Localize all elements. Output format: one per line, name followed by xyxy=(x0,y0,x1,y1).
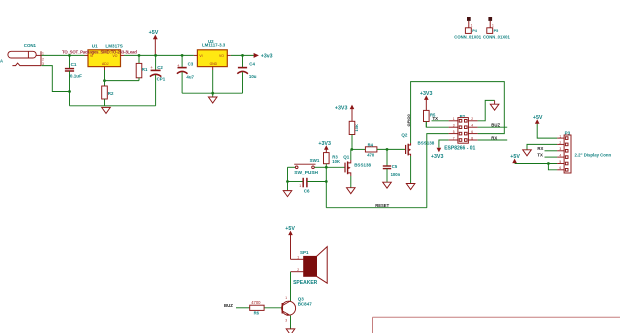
svg-text:TX: TX xyxy=(433,116,439,121)
svg-text:4: 4 xyxy=(559,154,561,158)
svg-text:6: 6 xyxy=(471,130,473,134)
svg-text:3: 3 xyxy=(453,124,455,128)
resistor R4 xyxy=(352,142,406,157)
transistor Q1 BSS138 xyxy=(326,154,371,176)
svg-text:1: 1 xyxy=(297,256,299,260)
power +5V speaker xyxy=(285,226,295,259)
svg-text:VO: VO xyxy=(113,54,118,58)
svg-text:R6: R6 xyxy=(254,310,260,315)
ground symbol P3 pin2 xyxy=(523,150,532,156)
wire SW1 left down xyxy=(287,167,289,190)
transistor Q2 BSS138 xyxy=(401,133,434,156)
svg-text:C5: C5 xyxy=(392,164,398,169)
power +5V P3 pin5 xyxy=(510,154,520,163)
wire RESET run xyxy=(326,207,427,209)
svg-text:+: + xyxy=(150,65,153,70)
wire Q1 drain up xyxy=(350,149,352,160)
svg-text:LM317S: LM317S xyxy=(105,44,122,49)
svg-text:LM1117-3.3: LM1117-3.3 xyxy=(202,43,226,48)
wire P3 pin3 RX xyxy=(545,150,558,152)
connector P2 ESP8266-01 header xyxy=(444,114,477,151)
svg-text:5: 5 xyxy=(559,160,561,164)
svg-text:7: 7 xyxy=(453,136,455,140)
svg-text:CON1: CON1 xyxy=(24,43,37,48)
svg-text:4: 4 xyxy=(471,124,473,128)
svg-text:10u: 10u xyxy=(249,74,257,79)
regulator U2 LM1117-3.3 xyxy=(194,39,231,70)
ground symbol PSU2 xyxy=(208,93,217,103)
svg-text:P5: P5 xyxy=(494,29,499,33)
wire Q1 source down xyxy=(350,176,352,188)
svg-text:U1: U1 xyxy=(92,44,98,49)
capacitor C1 0.1uF xyxy=(65,55,82,105)
wire P3 pin4 TX xyxy=(545,156,558,158)
svg-text:R1: R1 xyxy=(142,67,148,72)
connector CON1 barrel jack xyxy=(0,43,44,66)
svg-text:+3V3: +3V3 xyxy=(335,105,348,111)
wire pin1 TX stub xyxy=(432,120,449,122)
connector P5 CONN_01X01 xyxy=(483,17,510,40)
node junction R1 top xyxy=(138,54,141,57)
svg-text:C4: C4 xyxy=(249,61,255,66)
wire SP1 pin2 to Q3 collector xyxy=(290,272,292,302)
SECTION: power supply xyxy=(0,30,273,113)
svg-text:ADJ: ADJ xyxy=(102,62,109,66)
wire pin4 BUZ xyxy=(478,126,508,128)
svg-text:BUZ: BUZ xyxy=(224,303,233,308)
node junction ADJ xyxy=(103,79,106,82)
svg-text:BUZ: BUZ xyxy=(491,123,500,128)
svg-text:1: 1 xyxy=(492,23,494,27)
speaker SP1 xyxy=(291,247,328,286)
svg-text:BSS138: BSS138 xyxy=(354,162,371,167)
svg-text:1: 1 xyxy=(285,296,287,300)
svg-text:SW_PUSH: SW_PUSH xyxy=(294,170,318,176)
resistor R2 xyxy=(102,81,114,106)
ground symbol Q1 xyxy=(347,188,356,194)
svg-text:R2: R2 xyxy=(108,91,114,96)
wire reset vertical xyxy=(325,167,327,207)
svg-text:CONN_01X01: CONN_01X01 xyxy=(454,35,481,40)
svg-text:3: 3 xyxy=(559,147,561,151)
ground symbol SW xyxy=(283,191,292,197)
svg-text:RX: RX xyxy=(491,135,497,140)
node junction C6 left xyxy=(286,180,289,183)
transistor Q3 BC847 xyxy=(282,296,313,323)
svg-text:C1: C1 xyxy=(71,62,77,67)
wire U2 out xyxy=(231,54,254,56)
power +3V3 above R3 xyxy=(318,141,331,153)
node junction C6 right xyxy=(325,180,328,183)
wire GPIO0 loop xyxy=(411,82,505,143)
node junction gate xyxy=(325,166,328,169)
svg-text:3: 3 xyxy=(285,319,287,323)
svg-text:+5V: +5V xyxy=(510,154,520,160)
svg-text:RX: RX xyxy=(537,146,543,151)
svg-text:VO: VO xyxy=(219,54,224,58)
node junction U2 gnd xyxy=(211,92,214,95)
svg-text:2: 2 xyxy=(471,117,473,121)
power +3V3 down at pin7 xyxy=(431,148,444,160)
svg-text:VI: VI xyxy=(90,54,93,58)
svg-text:100n: 100n xyxy=(391,172,401,177)
svg-text:+: + xyxy=(177,63,180,68)
wire pin8 RX xyxy=(478,139,508,141)
svg-text:TX: TX xyxy=(537,153,543,158)
ground symbol ESP pin2 xyxy=(490,100,499,110)
wire Q2 source down xyxy=(410,156,412,183)
capacitor C6 xyxy=(288,178,327,194)
resistor R7 xyxy=(349,121,359,149)
node junction C4 top xyxy=(241,54,244,57)
svg-text:R4: R4 xyxy=(368,142,374,147)
svg-text:1: 1 xyxy=(559,135,561,139)
wire P3 pin2 to gnd xyxy=(527,144,557,149)
svg-text:2: 2 xyxy=(559,141,561,145)
resistor R5 xyxy=(424,110,437,127)
resistor R3 xyxy=(324,153,340,168)
SECTION: misc xyxy=(373,17,620,333)
svg-text:4u7: 4u7 xyxy=(186,75,194,80)
svg-text:VI: VI xyxy=(199,54,202,58)
power +5V xyxy=(149,30,159,55)
svg-text:0.1uF: 0.1uF xyxy=(70,74,82,79)
node junction C5 top xyxy=(386,148,389,151)
svg-text:+3V3: +3V3 xyxy=(318,141,331,147)
wire jack to U1 xyxy=(42,54,85,56)
svg-text:C3: C3 xyxy=(188,61,194,66)
svg-text:+5V: +5V xyxy=(533,115,543,121)
capacitor C4 10u xyxy=(237,55,256,93)
ground symbol Q3 xyxy=(286,329,295,333)
svg-text:10K: 10K xyxy=(354,124,359,131)
power +3V3 output flag xyxy=(254,53,273,60)
svg-text:SPEAKER: SPEAKER xyxy=(293,280,318,286)
svg-text:2: 2 xyxy=(42,57,44,61)
svg-text:C6: C6 xyxy=(304,189,310,194)
svg-text:SP1: SP1 xyxy=(300,250,309,255)
power +3V3 above R7 xyxy=(335,105,354,122)
wire pin7 to +3V3 xyxy=(439,140,449,148)
svg-text:470: 470 xyxy=(367,153,375,158)
connector P4 CONN_01X01 xyxy=(454,17,481,40)
node junction pin6 tie xyxy=(547,162,550,165)
wire P3 pin1 to +5V xyxy=(537,123,557,138)
wire U1 out xyxy=(124,54,194,56)
wire pin3 to R5 xyxy=(426,122,448,128)
SECTION: display xyxy=(510,115,611,173)
node junction C1 top xyxy=(68,54,71,57)
svg-text:2.2" Display Conn: 2.2" Display Conn xyxy=(575,152,612,157)
wire Q3 emitter down xyxy=(290,316,292,329)
svg-text:+5V: +5V xyxy=(149,30,159,36)
svg-text:Q1: Q1 xyxy=(343,154,350,159)
capacitor C2 CP1 polarized xyxy=(150,55,166,105)
svg-text:BSS138: BSS138 xyxy=(418,141,435,146)
svg-text:6: 6 xyxy=(559,166,561,170)
svg-text:1: 1 xyxy=(471,23,473,27)
capacitor C5 100n xyxy=(383,149,401,182)
wire U2 gnd xyxy=(212,70,214,93)
wire P3 pin6 tie xyxy=(548,164,557,170)
power +3V3 above R5 xyxy=(420,91,433,111)
svg-text:10K: 10K xyxy=(332,159,340,164)
ground symbol C5 xyxy=(383,182,392,188)
node junction C2/+5V xyxy=(154,54,157,57)
wire P3 pin5 to +5V xyxy=(515,163,558,165)
SECTION: esp xyxy=(283,82,507,208)
regulator U1 LM317S xyxy=(85,44,125,71)
ground rail 1 xyxy=(70,105,156,107)
ground symbol PSU1 xyxy=(102,107,111,113)
resistor R1 xyxy=(136,55,148,80)
svg-text:RESET: RESET xyxy=(375,203,389,208)
svg-text:1: 1 xyxy=(299,184,301,188)
svg-text:5: 5 xyxy=(453,130,455,134)
ground rail 2 xyxy=(182,92,242,94)
svg-text:2: 2 xyxy=(297,268,299,272)
sheet frame corner xyxy=(373,317,620,333)
pin stubs right xyxy=(468,120,477,122)
node junction drain xyxy=(350,148,353,151)
pin stubs left xyxy=(449,120,458,122)
node junction jack-C1 xyxy=(68,90,71,93)
wire ADJ node xyxy=(105,70,140,81)
node junction C3 top xyxy=(181,54,184,57)
svg-text:C2: C2 xyxy=(157,65,163,70)
svg-text:4700: 4700 xyxy=(251,300,261,305)
svg-text:+3v3: +3v3 xyxy=(261,54,273,60)
SECTION: speaker xyxy=(224,226,327,333)
svg-text:1: 1 xyxy=(453,117,455,121)
wire jack sleeve down xyxy=(42,66,70,92)
ground symbol Q2 xyxy=(406,184,415,190)
svg-text:SW1: SW1 xyxy=(310,158,320,163)
wire BUZ to R6 xyxy=(236,307,250,309)
connector P3 display xyxy=(557,130,611,173)
svg-text:A: A xyxy=(0,58,3,63)
svg-text:ESP8266 - 01: ESP8266 - 01 xyxy=(444,146,475,152)
resistor R6 4700 xyxy=(250,300,283,316)
switch SW1 SW_PUSH xyxy=(288,158,327,176)
capacitor C3 4u7 polarized xyxy=(177,55,195,93)
svg-text:TO_SOT_Packages_SMD:TO-263-3Le: TO_SOT_Packages_SMD:TO-263-3Lead xyxy=(62,49,137,54)
svg-text:+3V3: +3V3 xyxy=(431,154,444,160)
svg-text:CP1: CP1 xyxy=(157,76,166,81)
svg-text:8: 8 xyxy=(471,136,473,140)
wire pin5 to RESET xyxy=(427,134,449,208)
svg-text:Q2: Q2 xyxy=(401,133,408,138)
svg-text:CONN_01X01: CONN_01X01 xyxy=(483,35,510,40)
svg-text:GND: GND xyxy=(210,62,218,66)
svg-text:BC847: BC847 xyxy=(298,301,313,306)
wire pin2 to GND xyxy=(478,100,495,120)
svg-text:P2: P2 xyxy=(460,114,466,119)
small squares pins xyxy=(459,120,462,123)
power +5V P3 pin1 xyxy=(533,115,543,124)
